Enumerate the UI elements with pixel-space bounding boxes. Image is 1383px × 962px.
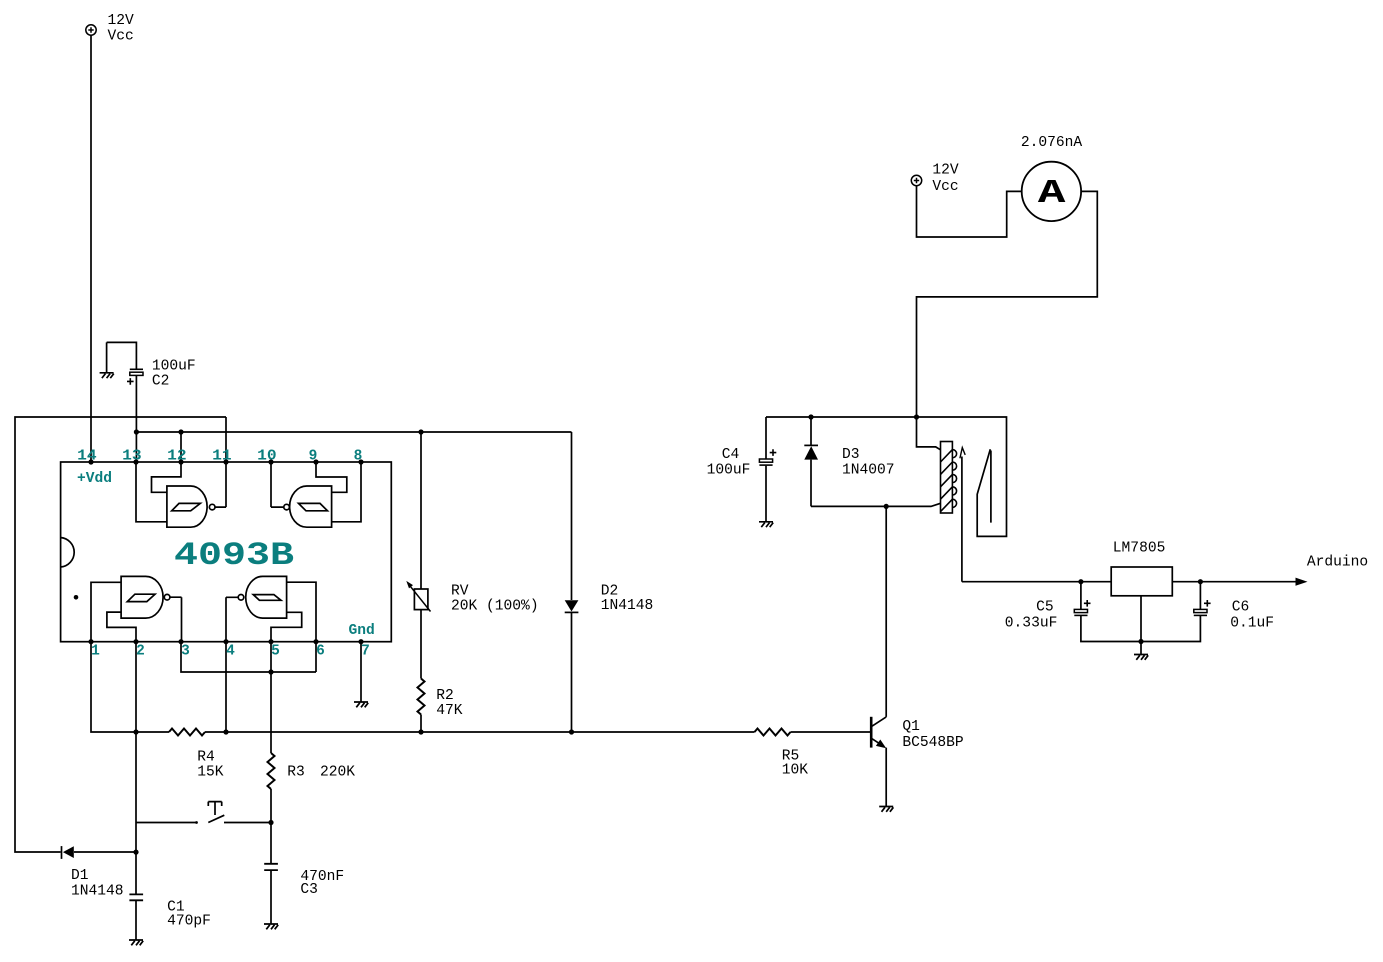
svg-text:7: 7 xyxy=(361,644,370,660)
svg-text:1N4148: 1N4148 xyxy=(71,884,124,900)
svg-text:9: 9 xyxy=(309,449,318,465)
svg-text:100uF: 100uF xyxy=(152,359,196,375)
svg-text:12V: 12V xyxy=(932,163,959,179)
svg-text:1N4007: 1N4007 xyxy=(842,463,895,479)
svg-text:Vcc: Vcc xyxy=(108,29,134,45)
svg-text:Arduino: Arduino xyxy=(1307,555,1368,571)
svg-text:C2: C2 xyxy=(152,374,170,390)
svg-text:BC548BP: BC548BP xyxy=(902,735,963,751)
svg-text:4093B: 4093B xyxy=(174,537,294,574)
svg-text:8: 8 xyxy=(354,449,363,465)
svg-text:0.1uF: 0.1uF xyxy=(1230,616,1274,632)
svg-text:D3: D3 xyxy=(842,447,860,463)
svg-text:+Vdd: +Vdd xyxy=(77,471,112,487)
svg-text:3: 3 xyxy=(181,644,190,660)
svg-text:10: 10 xyxy=(257,449,277,465)
svg-text:C6: C6 xyxy=(1232,600,1250,616)
svg-text:13: 13 xyxy=(122,449,142,465)
svg-text:6: 6 xyxy=(316,644,325,660)
svg-text:RV: RV xyxy=(451,584,469,600)
svg-text:C4: C4 xyxy=(722,447,740,463)
svg-text:5: 5 xyxy=(271,644,280,660)
svg-text:R3: R3 xyxy=(287,765,305,781)
svg-text:20K (100%): 20K (100%) xyxy=(451,599,539,615)
svg-text:Vcc: Vcc xyxy=(932,179,958,195)
svg-text:4: 4 xyxy=(226,644,235,660)
svg-text:2: 2 xyxy=(136,644,145,660)
svg-text:D1: D1 xyxy=(71,868,89,884)
svg-text:220K: 220K xyxy=(320,765,355,781)
svg-text:2.076nA: 2.076nA xyxy=(1021,135,1083,151)
svg-text:1N4148: 1N4148 xyxy=(601,598,654,614)
svg-text:470pF: 470pF xyxy=(167,914,211,930)
svg-text:C5: C5 xyxy=(1036,600,1054,616)
svg-text:14: 14 xyxy=(77,449,97,465)
svg-text:A: A xyxy=(1038,175,1066,212)
svg-text:Q1: Q1 xyxy=(902,719,920,735)
svg-text:100uF: 100uF xyxy=(707,463,751,479)
svg-text:47K: 47K xyxy=(436,703,463,719)
svg-text:10K: 10K xyxy=(782,763,809,779)
svg-text:0.33uF: 0.33uF xyxy=(1005,616,1058,632)
svg-text:11: 11 xyxy=(212,449,232,465)
svg-text:R2: R2 xyxy=(436,688,454,704)
svg-text:12: 12 xyxy=(167,449,187,465)
svg-text:R4: R4 xyxy=(197,750,215,766)
svg-text:1: 1 xyxy=(91,644,100,660)
svg-text:Gnd: Gnd xyxy=(349,623,375,639)
svg-text:12V: 12V xyxy=(108,13,135,29)
svg-text:LM7805: LM7805 xyxy=(1113,541,1166,557)
svg-text:C3: C3 xyxy=(300,882,318,898)
svg-text:15K: 15K xyxy=(197,765,224,781)
